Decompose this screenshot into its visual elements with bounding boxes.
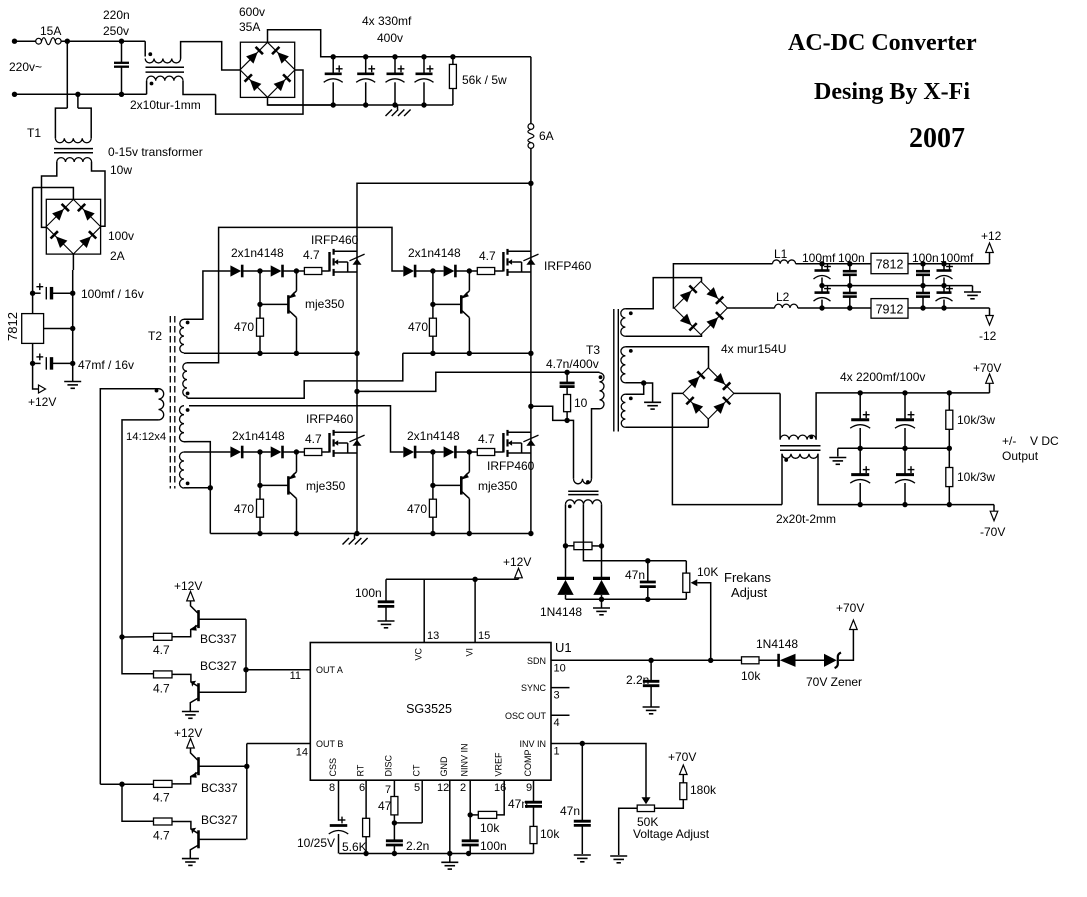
- wire T2 drive A base feed: [119, 634, 124, 639]
- svg-text:CT: CT: [412, 764, 422, 776]
- svg-text:U1: U1: [555, 640, 572, 655]
- svg-text:8: 8: [329, 782, 335, 794]
- wire H-bridge bottom ground rail: [210, 533, 531, 535]
- wire T3 sec2 bottom centre tap: [625, 382, 643, 384]
- svg-text:4x mur154U: 4x mur154U: [721, 342, 786, 356]
- capacitor 100n -12 input: [849, 286, 851, 293]
- wire 50K left to ground: [619, 808, 638, 855]
- diode D 1n4148 (b): [271, 446, 282, 457]
- svg-text:10k/3w: 10k/3w: [957, 470, 995, 484]
- svg-text:5: 5: [414, 782, 420, 794]
- diode D6 1N4148: [601, 546, 603, 577]
- svg-text:180k: 180k: [690, 783, 717, 797]
- wire CT primary left up to snubber node: [567, 420, 573, 478]
- svg-text:BC337: BC337: [201, 781, 238, 795]
- node gate-drive junction 1: [257, 449, 262, 454]
- wire bridge4 left corner to -70V loop: [672, 393, 782, 504]
- svg-text:1: 1: [554, 746, 560, 758]
- svg-text:11: 11: [290, 670, 301, 682]
- ground 12V mid rail: [972, 286, 974, 292]
- svg-text:RT: RT: [356, 764, 366, 776]
- wire T1 sec right to bridge2 AC right: [92, 162, 106, 226]
- diode D5 1N4148: [565, 546, 567, 577]
- transistor mje350: [460, 476, 463, 494]
- svg-text:15: 15: [478, 630, 490, 642]
- svg-text:IRFP460: IRFP460: [311, 233, 359, 247]
- transformer T1 secondary: [57, 158, 92, 162]
- svg-text:INV IN: INV IN: [519, 739, 546, 749]
- svg-text:+12V: +12V: [174, 726, 202, 740]
- resistor 470: [432, 271, 434, 318]
- transformer T2 winding 2: [183, 363, 187, 397]
- node input terminal N: [12, 92, 17, 97]
- transformer T2 winding 1: [180, 319, 184, 353]
- wire base node: [433, 303, 461, 305]
- svg-text:100mf / 16v: 100mf / 16v: [81, 287, 144, 301]
- resistor 4.7 gate: [296, 270, 304, 272]
- capacitor 2200mf/100v top: [858, 390, 863, 395]
- wire 7812 input rail: [32, 188, 34, 294]
- wire ct to disc node: [394, 822, 422, 824]
- svg-text:2x20t-2mm: 2x20t-2mm: [776, 512, 836, 526]
- pot 50K wiper arrow: [642, 797, 651, 804]
- pin 13 VC: [423, 579, 425, 642]
- wire bottom rail gnd: [339, 853, 533, 855]
- ground 100n vcc: [378, 620, 395, 622]
- transformer T2 winding 3: [180, 406, 185, 442]
- node snubber bottom: [564, 418, 569, 423]
- current transformer secondary: [566, 500, 602, 505]
- svg-text:6: 6: [359, 782, 365, 794]
- svg-text:mje350: mje350: [306, 479, 346, 493]
- resistor 4.7 gate: [469, 451, 477, 453]
- wire upper-right drive bottom rail: [403, 352, 531, 354]
- svg-text:470: 470: [234, 502, 254, 516]
- arrow +70V zener: [850, 620, 858, 630]
- wire inv to 50K pot: [582, 744, 646, 799]
- ground bottom rail: [449, 854, 451, 863]
- pin 10 SDN: [551, 659, 742, 661]
- arrow -70V output: [993, 505, 995, 512]
- svg-text:2x1n4148: 2x1n4148: [407, 429, 460, 443]
- wire T2 primary bottom to driver B: [122, 420, 159, 637]
- snubber resistor 10: [564, 395, 571, 412]
- svg-text:5.6K: 5.6K: [342, 840, 367, 854]
- node gate-drive junction 2: [467, 449, 472, 454]
- wire CT sec left tap: [565, 504, 567, 546]
- ground chassis under cap bank: [397, 105, 399, 110]
- wire base node: [433, 484, 461, 486]
- wire bridge1 DC- to cap bottom bus: [268, 97, 334, 105]
- diode D7 1N4148 (sdn): [777, 654, 780, 667]
- svg-text:IRFP460: IRFP460: [306, 412, 354, 426]
- node sdn 2.2n tap: [648, 658, 653, 663]
- svg-text:2A: 2A: [110, 249, 125, 263]
- node gate-drive junction 1: [430, 268, 435, 273]
- capacitor 2200mf/100v bottom: [904, 448, 906, 474]
- wire 50K right to 180k: [655, 800, 684, 809]
- diode D 1n4148 (a): [230, 446, 241, 457]
- wire from L terminal to fuse: [15, 40, 36, 42]
- svg-text:-12: -12: [979, 329, 997, 343]
- node mid gnd: [70, 326, 75, 331]
- wire 10k to diode: [759, 659, 779, 661]
- common-mode choke bottom winding: [146, 81, 148, 95]
- wire CT sec right tap: [601, 504, 603, 546]
- svg-text:Frekans: Frekans: [724, 570, 771, 585]
- svg-text:VREF: VREF: [494, 752, 504, 777]
- transistor mje350: [287, 295, 290, 313]
- wire cap bank bottom bus: [268, 104, 453, 106]
- ground 2.2n sdn: [643, 706, 660, 708]
- wire 70V mid rail: [838, 447, 950, 449]
- wire base node: [260, 303, 288, 305]
- current transformer primary loops: [574, 479, 592, 484]
- svg-text:56k / 5w: 56k / 5w: [462, 73, 507, 87]
- svg-text:47n: 47n: [560, 804, 580, 818]
- svg-text:470: 470: [408, 320, 428, 334]
- wire base node: [260, 484, 288, 486]
- pin 5 CT: [421, 780, 423, 823]
- svg-text:Output: Output: [1002, 449, 1039, 463]
- diode D 1n4148 (b): [444, 265, 455, 276]
- wire winding3+4 bottoms to ground rail: [189, 442, 210, 534]
- wire winding1 top feed: [184, 271, 230, 319]
- svg-text:470: 470: [234, 320, 254, 334]
- resistor 470: [259, 271, 261, 318]
- regulator 7912: [871, 299, 908, 319]
- bridge rectifier BR3 (+-12V): [674, 281, 727, 334]
- svg-text:10/25V: 10/25V: [297, 836, 335, 850]
- svg-text:T1: T1: [27, 126, 41, 140]
- wire cap bank top bus: [333, 56, 531, 58]
- wire midpoint B to snubber node: [531, 406, 567, 420]
- wire 7912 out: [908, 307, 990, 309]
- svg-text:6A: 6A: [539, 129, 554, 143]
- svg-text:13: 13: [427, 630, 439, 642]
- svg-text:9: 9: [526, 782, 532, 794]
- wire choke to bridge1 AC right: [216, 70, 303, 114]
- svg-text:SYNC: SYNC: [521, 683, 547, 693]
- pin 6 RT: [365, 780, 367, 818]
- svg-text:47: 47: [378, 799, 392, 813]
- transformer T1 primary: [55, 108, 67, 138]
- svg-text:+12V: +12V: [503, 555, 531, 569]
- svg-text:BC327: BC327: [201, 813, 238, 827]
- svg-text:100v: 100v: [108, 229, 134, 243]
- svg-text:VC: VC: [414, 648, 424, 661]
- wire T1 sec left to bridge2 AC left: [42, 162, 57, 227]
- svg-text:OUT A: OUT A: [316, 665, 343, 675]
- node inv in: [580, 741, 585, 746]
- svg-text:4.7: 4.7: [153, 681, 170, 695]
- node input terminal L: [12, 39, 17, 44]
- capacitor 2.2n CT: [393, 823, 395, 841]
- node 100mf left: [30, 291, 35, 296]
- capacitor 100mf -12 out: [943, 286, 945, 293]
- svg-text:4.7: 4.7: [153, 828, 170, 842]
- wire 7812 gnd to mid node: [44, 328, 73, 330]
- pin 3 SYNC: [551, 687, 570, 689]
- svg-text:2x1n4148: 2x1n4148: [408, 246, 461, 260]
- svg-text:15A: 15A: [40, 24, 61, 38]
- bridge rectifier BR1 600v 35A: [240, 42, 295, 97]
- svg-text:+70V: +70V: [973, 361, 1001, 375]
- node pin2: [468, 812, 473, 817]
- transformer T1 core: [54, 148, 93, 150]
- svg-text:600v: 600v: [239, 5, 265, 19]
- ground BC327 emitter: [182, 711, 199, 713]
- transformer T2 primary winding: [159, 389, 164, 420]
- transformer T2 winding 4: [180, 452, 185, 488]
- svg-text:4.7: 4.7: [153, 790, 170, 804]
- svg-text:BC327: BC327: [200, 659, 237, 673]
- common-mode choke 2x10tur-1mm top winding: [144, 41, 146, 56]
- svg-text:7: 7: [385, 784, 391, 796]
- resistor 4.7 gate: [469, 270, 477, 272]
- svg-text:2.2n: 2.2n: [406, 839, 429, 853]
- wire +12V output stub: [33, 363, 39, 389]
- node 220n bottom: [119, 92, 124, 97]
- output choke core: [780, 445, 821, 447]
- svg-text:2x1n4148: 2x1n4148: [231, 246, 284, 260]
- node top rail junction at T1 tap: [65, 39, 70, 44]
- svg-text:4.7: 4.7: [303, 248, 320, 262]
- svg-text:1N4148: 1N4148: [756, 637, 798, 651]
- svg-text:OSC OUT: OSC OUT: [505, 711, 547, 721]
- MOSFET Q3 IRFP460 lower-left: [328, 433, 330, 453]
- svg-text:10: 10: [574, 396, 588, 410]
- diode D 1n4148 (a): [403, 265, 414, 276]
- svg-text:AC-DC Converter: AC-DC Converter: [788, 30, 977, 56]
- wire to 220n bottom: [78, 93, 122, 95]
- resistor CT burden: [566, 545, 574, 547]
- svg-text:250v: 250v: [103, 24, 129, 38]
- svg-text:VI: VI: [465, 648, 475, 657]
- transformer T2 core: [169, 316, 171, 489]
- svg-text:10w: 10w: [110, 163, 132, 177]
- wire CT sec middle tap: [583, 504, 647, 561]
- transistor BC327: [172, 822, 198, 834]
- arrow +70V 180k: [682, 775, 684, 783]
- capacitor 100n ninv: [469, 815, 471, 841]
- common-mode choke core: [146, 66, 185, 68]
- svg-text:4: 4: [554, 717, 560, 729]
- wire diode row: [416, 270, 444, 272]
- node midpoint B junction: [528, 404, 533, 409]
- node 47mf left: [30, 361, 35, 366]
- resistor 47 disc: [391, 797, 398, 815]
- node 220n top: [119, 39, 124, 44]
- node 100mf right: [70, 291, 75, 296]
- wire zener to +70V: [839, 630, 853, 661]
- current transformer core: [568, 490, 598, 492]
- svg-text:4.7: 4.7: [478, 432, 495, 446]
- svg-text:47mf / 16v: 47mf / 16v: [78, 358, 134, 372]
- svg-text:2: 2: [460, 782, 466, 794]
- capacitor 100mf +12 input: [819, 261, 824, 266]
- wire choke to bridge1 AC left: [213, 42, 241, 70]
- capacitor 100mf/16v: [33, 292, 41, 294]
- wire -70V rail: [860, 504, 994, 506]
- transformer T3 secondary 2: [621, 347, 626, 383]
- node midpoint A junctions: [354, 389, 359, 394]
- svg-text:COMP: COMP: [523, 750, 533, 777]
- wire diode row: [243, 451, 271, 453]
- resistor 10k comp: [530, 826, 537, 843]
- wire VCC rail: [386, 578, 519, 580]
- svg-text:Voltage Adjust: Voltage Adjust: [633, 827, 710, 841]
- wire T3 sec3 top to centre tap: [625, 383, 643, 394]
- svg-text:4.7: 4.7: [305, 432, 322, 446]
- wire N terminal to T1 tap: [15, 93, 78, 95]
- svg-text:12: 12: [437, 782, 449, 794]
- capacitor 100n vcc: [385, 579, 387, 601]
- svg-text:NINV IN: NINV IN: [460, 743, 470, 776]
- capacitor 220n 250v: [121, 41, 123, 63]
- bridge rectifier BR1 600v 35A box: [240, 42, 294, 97]
- wire bridge2 DC- down: [72, 254, 74, 270]
- svg-text:400v: 400v: [377, 31, 403, 45]
- ground 70V mid: [837, 448, 839, 456]
- svg-text:4x 330mf: 4x 330mf: [362, 14, 412, 28]
- svg-text:T2: T2: [148, 329, 162, 343]
- wire upper-left drive bottom rail: [184, 352, 357, 354]
- capacitor 100mf +12 out: [941, 261, 946, 266]
- svg-text:100n: 100n: [355, 586, 382, 600]
- capacitor 2.2n sdn: [650, 660, 652, 681]
- svg-text:14:12x4: 14:12x4: [126, 431, 166, 443]
- svg-text:2x1n4148: 2x1n4148: [232, 429, 285, 443]
- svg-text:100n: 100n: [480, 839, 507, 853]
- svg-text:DISC: DISC: [384, 754, 394, 776]
- arrow +70V output: [989, 383, 991, 393]
- arrow +12V vcc: [518, 578, 520, 580]
- wire driver B output: [246, 744, 248, 840]
- diode D 1n4148 (a): [403, 446, 414, 457]
- wire T2 drive B base feed: [100, 783, 122, 785]
- svg-text:CSS: CSS: [328, 758, 338, 777]
- MOSFET Q4 IRFP460 lower-right: [502, 433, 504, 453]
- svg-text:V DC: V DC: [1030, 434, 1059, 448]
- output choke bottom winding: [782, 454, 818, 459]
- ground BC327 emitter: [182, 858, 199, 860]
- svg-text:10k: 10k: [540, 827, 560, 841]
- resistor 56k/5w bleeder: [450, 54, 455, 59]
- ground 47n inv: [574, 854, 591, 856]
- svg-text:-70V: -70V: [980, 525, 1005, 539]
- ground T3 centre tap: [644, 401, 661, 403]
- wire diode row: [243, 270, 271, 272]
- fuse F1 15A: [36, 38, 42, 44]
- wire diode to zener: [796, 659, 825, 661]
- wire winding2 top to rail: [187, 227, 403, 362]
- node sdn wiper tap: [708, 658, 713, 663]
- capacitor 100n +12 out: [920, 261, 925, 266]
- resistor 4.7 BC337 base: [154, 633, 173, 640]
- svg-text:1N4148: 1N4148: [540, 605, 582, 619]
- wire HV top rail to left totem: [357, 183, 531, 533]
- pot 10K wiper: [691, 579, 698, 586]
- fuse F2 6A: [530, 57, 532, 124]
- node HV bus junction: [528, 181, 533, 186]
- svg-text:10K: 10K: [697, 565, 718, 579]
- ground below bridge2 rail: [72, 363, 74, 381]
- ground frekans: [601, 599, 603, 608]
- wire to choke bottom-left: [122, 93, 147, 95]
- capacitor C2 330mf 400v: [363, 54, 368, 59]
- zener 70V: [824, 654, 837, 667]
- resistor 5.6K: [363, 818, 370, 836]
- wire 7812 out: [32, 343, 34, 363]
- svg-text:0-15v transformer: 0-15v transformer: [108, 145, 203, 159]
- potentiometer 50K: [637, 805, 654, 812]
- node gate-drive junction 2: [467, 268, 472, 273]
- arrow +12V output: [39, 385, 46, 393]
- wire driver A output: [245, 619, 247, 692]
- wire T3 sec1 top to bridge3: [625, 278, 701, 309]
- svg-text:3: 3: [554, 690, 560, 702]
- capacitor 47n frekans: [645, 558, 650, 563]
- capacitor 100n -12 out: [922, 286, 924, 293]
- regulator 7812 (12V rail): [871, 253, 908, 273]
- capacitor 2200mf/100v top: [902, 390, 907, 395]
- capacitor 100mf -12 input: [821, 286, 823, 293]
- wire L2 to 7912: [798, 307, 871, 309]
- wire bridge2 DC+ to 7812 rail: [33, 188, 74, 200]
- svg-text:220n: 220n: [103, 8, 130, 22]
- wire +70V rail: [860, 392, 989, 394]
- arrow +12 output: [989, 253, 991, 264]
- MOSFET Q2 IRFP460 upper-right: [502, 252, 504, 272]
- svg-text:BC337: BC337: [200, 632, 237, 646]
- wire L1 to 7812: [796, 263, 871, 265]
- capacitor C1 330mf 400v: [331, 54, 336, 59]
- IC U1 SG3525: [310, 643, 551, 781]
- capacitor 10/25V soft-start: [330, 824, 348, 827]
- ground chassis H-bridge: [354, 534, 356, 539]
- svg-text:2.2n: 2.2n: [626, 673, 649, 687]
- wire T1 primary taps: [66, 41, 68, 108]
- capacitor C3 330mf 400v: [392, 54, 397, 59]
- transistor mje350: [460, 295, 463, 313]
- svg-text:100mf: 100mf: [802, 251, 836, 265]
- pin 11 OUT A: [246, 669, 310, 671]
- output choke top winding: [779, 393, 781, 439]
- pin 4 OSC OUT: [551, 714, 570, 716]
- pin 2 NINV IN: [469, 780, 471, 815]
- wire fuse to 220n cap: [61, 40, 121, 42]
- wire bridge4 right corner +70V rail: [734, 392, 780, 394]
- transformer T3 primary: [600, 373, 605, 409]
- diode D 1n4148 (b): [271, 265, 282, 276]
- svg-text:4.7: 4.7: [153, 643, 170, 657]
- capacitor C4 330mf 400v: [421, 54, 426, 59]
- wire T3 primary bottom to CT loop: [592, 409, 600, 479]
- resistor 10k ninv-vref: [470, 814, 478, 816]
- svg-text:Desing By X-Fi: Desing By X-Fi: [814, 79, 970, 105]
- svg-text:4.7: 4.7: [479, 249, 496, 263]
- node bottom rail junction at T1 tap: [75, 92, 80, 97]
- resistor 10k/3w lower: [948, 448, 950, 467]
- wire rail C midpoint A to T3 primary: [357, 372, 567, 391]
- wire winding4 top to lower-left drive: [184, 451, 230, 453]
- svg-text:7812: 7812: [876, 258, 904, 272]
- resistor 4.7 BC337 base: [154, 780, 173, 787]
- bridge rectifier BR4 4x mur154U: [683, 368, 734, 419]
- resistor 10k/3w upper: [947, 390, 952, 395]
- pin 9 COMP: [533, 780, 535, 802]
